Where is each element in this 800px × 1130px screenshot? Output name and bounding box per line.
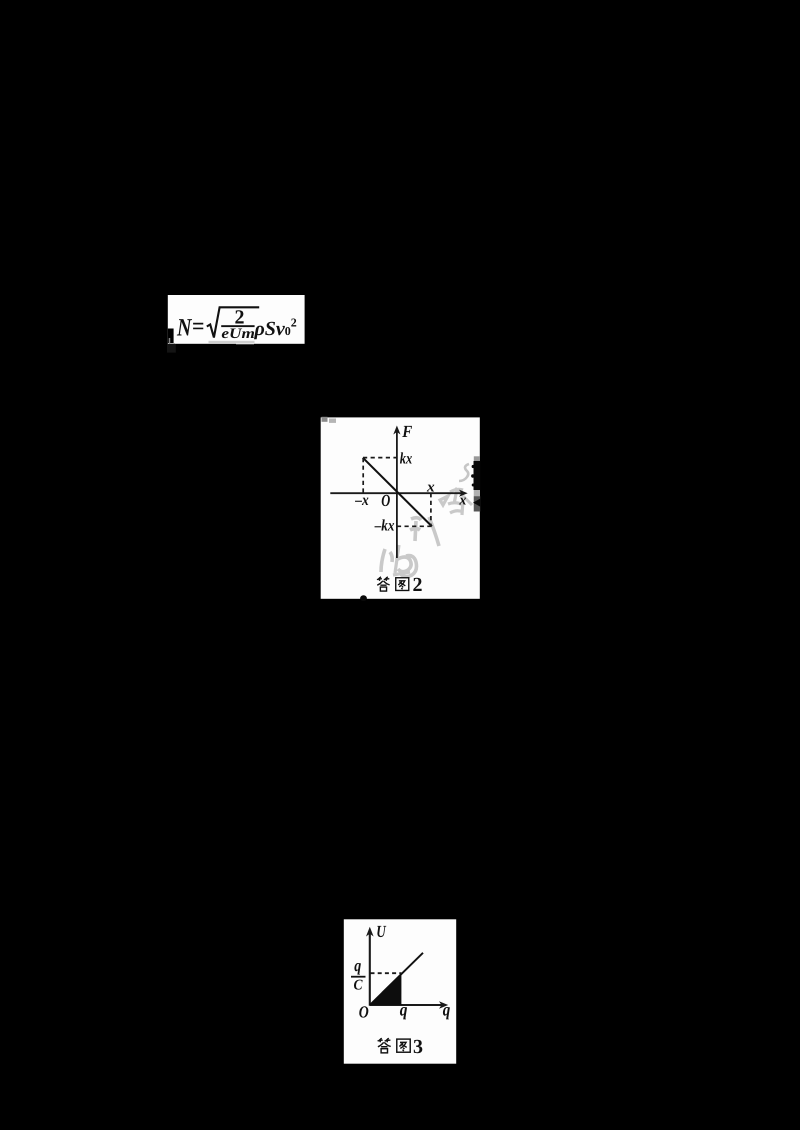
caption: char 图 (397, 1039, 410, 1052)
dashed horizontal from axis to line (371, 972, 402, 974)
filled triangle under line (370, 973, 402, 1005)
formula white panel (168, 295, 305, 344)
svg-text:N: N (176, 315, 192, 342)
svg-text:x: x (426, 479, 435, 495)
svg-text:ρSv: ρSv (254, 318, 286, 340)
F axis arrowhead (393, 426, 400, 435)
dashed vertical from upper-left point down to x axis (362, 458, 364, 493)
svg-text:–kx: –kx (374, 518, 395, 535)
svg-text:eUm: eUm (221, 326, 255, 342)
dashed vertical right from x axis down to line end (430, 493, 432, 526)
svg-text:q: q (400, 999, 408, 1019)
svg-text:3: 3 (413, 1036, 423, 1058)
watermark diagonal stroke across x label (455, 488, 472, 505)
watermark character blob 3 (large loops bottom) (381, 549, 417, 577)
dark smudge strip on right edge of graph2 panel (474, 456, 480, 511)
fraction bar (221, 325, 254, 327)
svg-text:U: U (376, 922, 386, 941)
x axis (horizontal) (330, 492, 463, 494)
svg-text:–x: –x (354, 492, 368, 509)
svg-text:2: 2 (291, 316, 297, 330)
svg-text:O: O (359, 1003, 369, 1022)
caption: char 答 (377, 577, 390, 591)
svg-text:F: F (401, 422, 412, 441)
faint grey smudge under denominator (209, 341, 255, 343)
fraction bar (351, 976, 366, 978)
x axis arrowhead (459, 490, 468, 497)
diagonal line (negative slope) (363, 458, 432, 527)
dark block below panel (167, 344, 176, 353)
watermark character blob 2 (410, 517, 439, 546)
caption: char 答 (378, 1038, 391, 1053)
svg-text:=: = (192, 314, 205, 340)
radical sign of sqrt (207, 307, 259, 337)
graph2 white panel (321, 417, 480, 598)
caption: char 图 (396, 578, 409, 591)
graph3 white panel (344, 919, 456, 1063)
watermark character blob 1 (440, 489, 463, 515)
black dot below caption (360, 595, 367, 601)
watermark stroke small curl right of axis (459, 464, 469, 481)
svg-text:kx: kx (400, 450, 413, 467)
svg-text:x: x (458, 493, 466, 509)
svg-text:O: O (381, 491, 390, 510)
grey specks top-left of graph2 panel (322, 417, 328, 422)
black notch on formula panel left edge (168, 329, 174, 344)
svg-text:q: q (443, 1000, 451, 1020)
dashed horizontal upper-left to axis (363, 457, 397, 459)
U axis (vertical) (369, 931, 371, 1006)
svg-text:q: q (354, 956, 361, 975)
q axis (horizontal) (370, 1004, 443, 1006)
F axis (vertical) (396, 430, 398, 558)
U axis arrowhead (366, 927, 374, 937)
svg-text:C: C (354, 978, 364, 994)
q axis arrowhead (439, 1001, 448, 1009)
diagonal line through origin (370, 953, 423, 1005)
dashed horizontal bottom from axis to line end (397, 525, 431, 527)
svg-text:2: 2 (413, 574, 423, 596)
grey L-mark below notch (170, 338, 176, 344)
